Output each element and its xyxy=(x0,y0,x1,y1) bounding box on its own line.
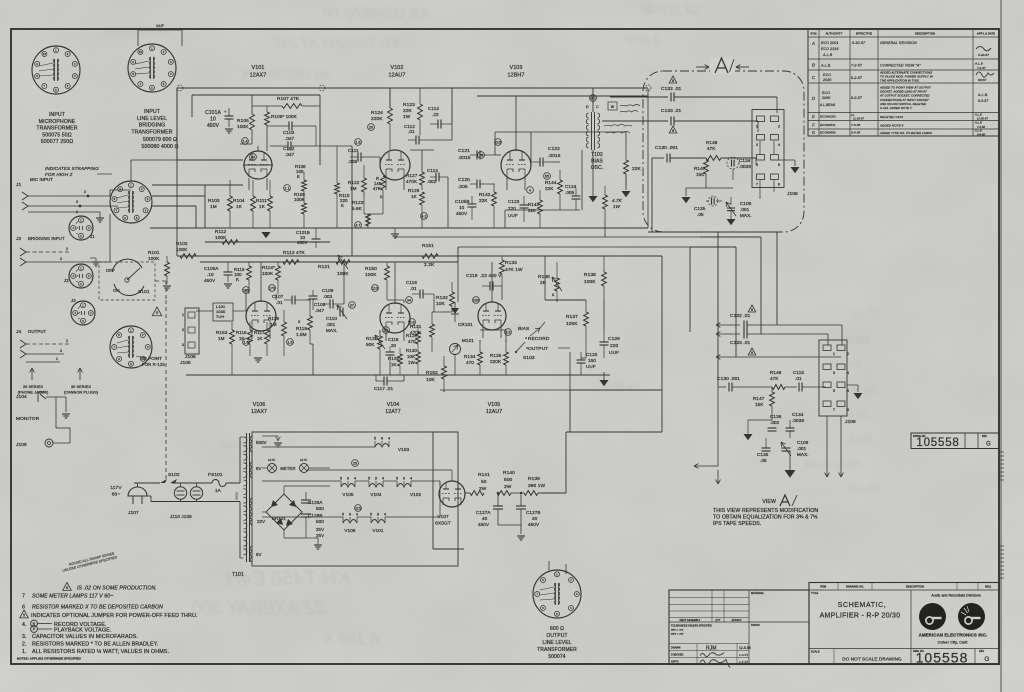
svg-text:6V: 6V xyxy=(256,552,262,557)
checked signature xyxy=(700,653,724,657)
svg-text:.01: .01 xyxy=(410,286,417,291)
svg-text:12-5-56: 12-5-56 xyxy=(739,646,751,650)
svg-text:R121: R121 xyxy=(318,264,330,270)
title block tolerances + signatures xyxy=(668,621,670,623)
svg-text:C116: C116 xyxy=(406,280,417,285)
svg-text:A: A xyxy=(811,41,815,46)
svg-text:OFF: OFF xyxy=(106,268,115,273)
svg-text:J104: J104 xyxy=(16,394,27,400)
svg-text:OUTPUT: OUTPUT xyxy=(528,346,548,352)
svg-text:TRANSFORMER: TRANSFORMER xyxy=(537,647,577,653)
svg-text:APP'D: APP'D xyxy=(671,661,679,664)
svg-text:R151: R151 xyxy=(422,243,434,249)
svg-text:R126: R126 xyxy=(408,188,420,193)
svg-text:15K: 15K xyxy=(755,402,764,407)
svg-text:1.5: 1.5 xyxy=(243,340,248,344)
svg-text:60~: 60~ xyxy=(112,492,121,498)
test points V106 xyxy=(243,287,250,294)
svg-text:.0039: .0039 xyxy=(792,418,804,423)
svg-text:J3: J3 xyxy=(71,298,76,303)
title block outline xyxy=(669,590,809,665)
svg-text:R134: R134 xyxy=(464,354,476,359)
svg-text:RECORD: RECORD xyxy=(528,336,550,342)
svg-text:V101: V101 xyxy=(372,528,383,533)
approved signature xyxy=(700,660,730,668)
svg-text:.047: .047 xyxy=(285,152,295,157)
wire junction marker left xyxy=(177,85,183,91)
svg-text:1K: 1K xyxy=(259,204,266,209)
input microphone transformer socket xyxy=(32,46,80,94)
heater V102 xyxy=(397,484,411,488)
svg-text:J2: J2 xyxy=(16,236,21,242)
wire left arrow bottom xyxy=(694,465,712,467)
svg-text:R112: R112 xyxy=(215,229,227,234)
svg-text:6: 6 xyxy=(847,389,849,393)
svg-text:NEXT ASSEMBLY: NEXT ASSEMBLY xyxy=(680,619,701,622)
svg-text:DRAWING NO.: DRAWING NO. xyxy=(846,586,864,589)
svg-text:SR101: SR101 xyxy=(272,516,286,521)
svg-text:8/2/57: 8/2/57 xyxy=(978,78,987,82)
wire drops below view A box xyxy=(717,232,719,387)
svg-text:LINE LEVEL: LINE LEVEL xyxy=(137,116,167,122)
svg-text:100K: 100K xyxy=(566,321,578,327)
wire V101 grid feed xyxy=(177,159,243,161)
svg-text:12AT7: 12AT7 xyxy=(385,409,400,415)
meter M101 xyxy=(450,344,461,355)
svg-text:AB-72 45-44: AB-72 45-44 xyxy=(805,460,863,471)
wire V102 stage links xyxy=(389,88,391,108)
svg-text:R142: R142 xyxy=(479,192,491,197)
test point rectifier xyxy=(352,460,359,467)
svg-text:V105: V105 xyxy=(488,402,501,408)
svg-text:2: 2 xyxy=(66,247,68,251)
svg-text:47K: 47K xyxy=(707,146,716,151)
svg-text:7-8-58: 7-8-58 xyxy=(851,123,861,127)
test points V102 xyxy=(368,124,375,131)
svg-text:ECO: ECO xyxy=(822,91,830,95)
rotary switch S101 xyxy=(112,259,142,272)
svg-text:6H-5: 6H-5 xyxy=(850,435,872,446)
svg-text:4: 4 xyxy=(847,371,849,375)
svg-text:2 8PM: 2 8PM xyxy=(625,33,661,47)
svg-text:2020: 2020 xyxy=(822,78,831,82)
svg-text:MONITOR: MONITOR xyxy=(16,416,40,422)
svg-text:10K: 10K xyxy=(407,354,415,359)
wire row1/row2 tie rails xyxy=(395,236,700,238)
resistor R110 xyxy=(335,183,340,194)
svg-text:11-26-57: 11-26-57 xyxy=(977,117,988,121)
svg-text:D: D xyxy=(586,105,589,109)
wire row1 ground bus xyxy=(150,227,648,229)
svg-text:OUTPUT: OUTPUT xyxy=(28,329,47,334)
svg-text:2W: 2W xyxy=(504,484,512,490)
svg-text:V102: V102 xyxy=(391,65,404,71)
svg-text:3: 3 xyxy=(60,349,62,353)
svg-text:V102: V102 xyxy=(410,492,421,497)
svg-text:KH.T456 E4H: KH.T456 E4H xyxy=(226,568,350,590)
svg-text:50K: 50K xyxy=(366,342,375,347)
svg-text:FS101: FS101 xyxy=(208,472,223,478)
svg-text:MAX.: MAX. xyxy=(326,328,338,333)
svg-text:QTY: QTY xyxy=(715,620,720,622)
svg-text:G: G xyxy=(986,442,991,448)
ground under J1 xyxy=(96,217,104,219)
svg-text:500: 500 xyxy=(316,519,324,524)
svg-text:1.: 1. xyxy=(22,649,27,655)
connector J106 bottom box xyxy=(819,340,847,416)
tube V101 xyxy=(244,151,272,179)
svg-text:20 SERIES: 20 SERIES xyxy=(23,385,43,389)
svg-text:100K: 100K xyxy=(176,247,188,252)
heater V103 xyxy=(375,444,389,448)
svg-text:100K: 100K xyxy=(262,271,274,276)
svg-text:C118: C118 xyxy=(388,337,399,342)
svg-text:C106: C106 xyxy=(740,201,752,206)
svg-text:METER: METER xyxy=(280,466,295,471)
svg-text:R144: R144 xyxy=(545,180,557,185)
ground left bottom view xyxy=(744,434,753,440)
svg-text:.05: .05 xyxy=(760,458,767,463)
svg-text:JK-30: JK-30 xyxy=(848,385,876,396)
svg-text:R102: R102 xyxy=(176,241,188,246)
svg-text:220: 220 xyxy=(610,343,619,349)
svg-text:170: 170 xyxy=(269,286,275,290)
svg-text:ALL RESISTORS RATED ½ WATT: ALL RESISTORS RATED ½ WATT; VALUES IN OH… xyxy=(32,648,169,655)
svg-text:ANG ± .030: ANG ± .030 xyxy=(671,633,684,636)
wire junction marker right xyxy=(645,85,651,91)
svg-text:7-2-57: 7-2-57 xyxy=(977,66,986,70)
svg-text:C105A: C105A xyxy=(204,266,219,271)
svg-text:.002: .002 xyxy=(770,420,780,425)
ground heater box xyxy=(314,544,322,546)
svg-text:C101A: C101A xyxy=(205,110,221,116)
svg-text:9: 9 xyxy=(375,477,377,481)
svg-text:GENERAL REVISION: GENERAL REVISION xyxy=(880,41,917,45)
svg-text:TOLERANCES UNLESS SPECIFIED: TOLERANCES UNLESS SPECIFIED xyxy=(671,625,712,628)
ground at J106 pin6 xyxy=(847,384,858,386)
svg-text:1M: 1M xyxy=(210,204,217,209)
svg-text:7-2-57: 7-2-57 xyxy=(851,64,863,68)
svg-text:470: 470 xyxy=(466,360,474,365)
svg-text:VIEW: VIEW xyxy=(762,499,776,505)
svg-text:R122: R122 xyxy=(348,180,360,185)
svg-text:14.5″: 14.5″ xyxy=(156,24,165,28)
title area xyxy=(809,648,911,650)
svg-text:R123: R123 xyxy=(352,200,364,205)
test points V101 xyxy=(242,138,249,145)
svg-text:V107: V107 xyxy=(437,514,449,520)
svg-text:1W: 1W xyxy=(403,114,411,120)
svg-text:.005: .005 xyxy=(458,184,468,190)
output socket 8-pin xyxy=(110,326,152,368)
svg-text:C108: C108 xyxy=(314,302,326,307)
right edge fold ruler xyxy=(1000,0,1002,692)
svg-text:C109: C109 xyxy=(322,288,334,293)
svg-text:150: 150 xyxy=(473,298,479,302)
svg-text:A.L.BEAN: A.L.BEAN xyxy=(819,103,836,107)
svg-text:DRAWN: DRAWN xyxy=(671,647,681,650)
wire tie rails to record box xyxy=(457,247,459,262)
svg-text:TIE POINT: TIE POINT xyxy=(140,356,162,361)
svg-text:R143: R143 xyxy=(528,202,539,207)
svg-text:OSC.: OSC. xyxy=(591,165,604,171)
svg-text:THE APPLICATION IN THIS.: THE APPLICATION IN THIS. xyxy=(880,79,920,83)
svg-text:R124: R124 xyxy=(371,110,383,116)
svg-text:TITLE: TITLE xyxy=(811,592,819,595)
svg-text:10K: 10K xyxy=(426,377,436,383)
svg-text:9: 9 xyxy=(347,477,349,481)
svg-text:C124: C124 xyxy=(565,184,577,189)
svg-text:C133 .01: C133 .01 xyxy=(730,340,751,346)
svg-text:NOTES: APPLIES OTHERWISE SPECI: NOTES: APPLIES OTHERWISE SPECIFIED xyxy=(17,657,82,661)
svg-text:117V: 117V xyxy=(268,458,275,462)
svg-text:C132 .01: C132 .01 xyxy=(730,313,751,319)
svg-text:ECO 2316: ECO 2316 xyxy=(821,47,839,51)
svg-text:J2: J2 xyxy=(64,278,69,283)
svg-text:100K: 100K xyxy=(215,235,227,240)
svg-text:INDICATES STRAPPING: INDICATES STRAPPING xyxy=(45,166,99,171)
svg-text:C121: C121 xyxy=(458,148,470,154)
wire top B+ rail xyxy=(177,87,648,89)
svg-text:9-9-57: 9-9-57 xyxy=(978,99,988,103)
20/30 series arrows + labels xyxy=(31,368,33,380)
svg-text:7: 7 xyxy=(22,594,25,600)
svg-text:75: 75 xyxy=(479,153,483,157)
svg-text:4: 4 xyxy=(354,477,356,481)
test points V105 xyxy=(473,297,480,304)
svg-text:J109: J109 xyxy=(16,442,27,448)
svg-text:R152: R152 xyxy=(426,370,438,376)
wire junction marker mid xyxy=(319,85,325,91)
svg-text:KH.TARSHY AT 24C: KH.TARSHY AT 24C xyxy=(270,35,400,51)
svg-text:AMERICAN ELECTRONICS INC.: AMERICAN ELECTRONICS INC. xyxy=(919,633,988,638)
svg-text:2.2K: 2.2K xyxy=(424,262,435,268)
rectifier SR101 xyxy=(266,494,302,530)
svg-text:REQ: REQ xyxy=(985,586,991,589)
svg-text:470: 470 xyxy=(408,339,416,344)
svg-text:RESISTORS MARKED * TO BE: RESISTORS MARKED * TO BE ALLEN BRADLEY. xyxy=(32,642,158,648)
svg-text:1W: 1W xyxy=(613,204,621,209)
svg-text:C107: C107 xyxy=(272,294,284,299)
svg-text:2.: 2. xyxy=(22,642,27,648)
svg-text:74-453: 74-453 xyxy=(605,381,640,393)
svg-text:150: 150 xyxy=(588,358,596,363)
svg-text:12BH7: 12BH7 xyxy=(508,73,525,79)
svg-text:TO OBTAIN EQUALIZATION FOR: TO OBTAIN EQUALIZATION FOR 3¾ & 7½ xyxy=(713,514,818,521)
svg-text:210: 210 xyxy=(495,140,501,144)
svg-text:450V: 450V xyxy=(456,211,468,216)
svg-text:6: 6 xyxy=(22,605,25,611)
svg-text:AB OS-4570 TP: AB OS-4570 TP xyxy=(322,5,431,22)
svg-text:C105B: C105B xyxy=(455,199,470,204)
svg-text:25V: 25V xyxy=(316,527,324,532)
svg-text:ADDED TYPE NO. TO METER LAMPS: ADDED TYPE NO. TO METER LAMPS xyxy=(879,131,932,135)
svg-text:R148: R148 xyxy=(706,140,718,145)
svg-text:EFFECTIVE: EFFECTIVE xyxy=(856,32,872,36)
svg-text:MATERIAL: MATERIAL xyxy=(751,592,765,595)
ground V106 cathode xyxy=(254,357,262,359)
svg-text:S102: S102 xyxy=(168,472,180,478)
ground under J104 xyxy=(65,397,67,412)
svg-text:65: 65 xyxy=(545,174,549,178)
svg-text:3: 3 xyxy=(756,143,758,147)
svg-text:117V: 117V xyxy=(110,485,122,491)
svg-text:8: 8 xyxy=(751,351,753,355)
svg-text:.0015: .0015 xyxy=(458,155,471,161)
svg-text:12AX7: 12AX7 xyxy=(250,73,267,79)
svg-text:ECO#2841: ECO#2841 xyxy=(820,123,836,127)
svg-text:11-: 11- xyxy=(851,113,855,117)
svg-text:C120: C120 xyxy=(458,177,470,183)
svg-text:AUTHORITY: AUTHORITY xyxy=(825,32,842,36)
svg-text:UUF: UUF xyxy=(609,350,619,356)
svg-text:4: 4 xyxy=(410,477,412,481)
ground 22K bias xyxy=(622,191,631,197)
svg-text:ITEM: ITEM xyxy=(820,586,826,589)
svg-text:10K: 10K xyxy=(436,301,446,307)
svg-text:A.L.B: A.L.B xyxy=(822,53,833,57)
svg-text:40: 40 xyxy=(482,516,488,521)
svg-text:R147: R147 xyxy=(753,396,765,401)
svg-text:ECO 2001: ECO 2001 xyxy=(821,41,839,45)
svg-text:R116: R116 xyxy=(236,330,247,335)
drawing number cell xyxy=(911,648,999,650)
svg-text:6: 6 xyxy=(778,163,780,167)
svg-text:TRANSFORMER: TRANSFORMER xyxy=(36,126,77,132)
svg-text:5: 5 xyxy=(833,389,835,393)
svg-text:R104: R104 xyxy=(233,198,245,203)
svg-text:UUF: UUF xyxy=(508,213,518,218)
svg-text:V103: V103 xyxy=(510,65,523,71)
svg-text:CHECKED: CHECKED xyxy=(671,654,684,657)
svg-text:RESISTOR MARKED X TO BE DE: RESISTOR MARKED X TO BE DEPOSITED CARBON xyxy=(32,605,163,611)
svg-text:K: K xyxy=(297,174,300,179)
svg-text:INPUT: INPUT xyxy=(49,112,66,118)
svg-text:500: 500 xyxy=(316,506,324,511)
svg-text:EFFECT.: EFFECT. xyxy=(732,619,743,622)
svg-text:40: 40 xyxy=(532,516,538,521)
svg-text:MIC INPUT: MIC INPUT xyxy=(30,177,53,182)
svg-text:A.L.B: A.L.B xyxy=(974,113,982,117)
wire bias feed down xyxy=(604,220,606,237)
svg-text:100K: 100K xyxy=(237,124,249,130)
svg-text:.05: .05 xyxy=(697,212,704,217)
wire rail second top xyxy=(477,95,648,97)
svg-text:3: 3 xyxy=(76,200,78,204)
wires from jacks to input socket xyxy=(88,195,110,197)
ground under C126 xyxy=(600,380,609,386)
svg-text:2: 2 xyxy=(84,190,86,194)
svg-text:5-30-57: 5-30-57 xyxy=(852,41,866,45)
title block next-assembly grid xyxy=(669,597,749,599)
connector J106 box xyxy=(752,110,784,188)
svg-text:450V: 450V xyxy=(478,522,490,527)
wire row2 ground bus xyxy=(186,374,610,376)
svg-text:(CANNON PLUGS): (CANNON PLUGS) xyxy=(64,390,99,394)
svg-text:C126: C126 xyxy=(608,336,620,342)
svg-text:5-30-57: 5-30-57 xyxy=(978,53,989,57)
svg-text:5: 5 xyxy=(23,614,25,618)
power top wire xyxy=(134,482,160,484)
transformer T102 bias osc xyxy=(591,112,593,150)
svg-text:DESCRIPTION: DESCRIPTION xyxy=(906,586,924,589)
svg-text:1K: 1K xyxy=(411,194,418,199)
svg-text:R141: R141 xyxy=(478,472,490,478)
meter lamps xyxy=(268,464,277,473)
svg-text:.0015: .0015 xyxy=(548,153,561,159)
svg-text:470K: 470K xyxy=(410,330,422,335)
svg-text:7: 7 xyxy=(833,408,835,412)
svg-text:REV: REV xyxy=(979,650,985,653)
socket J2 4-pin xyxy=(69,264,93,288)
svg-text:1K: 1K xyxy=(257,336,263,341)
svg-text:117V: 117V xyxy=(300,458,307,462)
svg-text:3: 3 xyxy=(182,343,184,347)
svg-text:J107: J107 xyxy=(128,510,139,516)
svg-text:M101: M101 xyxy=(462,338,474,343)
svg-text:4: 4 xyxy=(356,513,358,517)
wire V101 inner feedback box xyxy=(192,94,320,96)
svg-text:100K: 100K xyxy=(584,279,596,285)
svg-text:22K: 22K xyxy=(545,186,554,191)
svg-text:100K: 100K xyxy=(148,256,160,261)
ground right of J106 xyxy=(778,159,795,161)
svg-text:R101: R101 xyxy=(148,250,160,255)
ghost bleed-through text xyxy=(106,3,881,648)
svg-text:R137: R137 xyxy=(566,314,578,320)
svg-text:C130 .001: C130 .001 xyxy=(717,376,740,382)
wire record output to transformer xyxy=(569,390,571,432)
tube V102 xyxy=(380,150,410,180)
svg-text:G: G xyxy=(984,656,989,663)
svg-text:470K: 470K xyxy=(406,179,418,184)
svg-text:4: 4 xyxy=(382,477,384,481)
svg-text:SYM: SYM xyxy=(811,32,817,36)
svg-text:9: 9 xyxy=(349,513,351,517)
svg-text:10: 10 xyxy=(210,117,216,123)
svg-text:450V: 450V xyxy=(528,522,540,527)
diode CR101 xyxy=(454,302,456,308)
svg-text:1.5M: 1.5M xyxy=(296,332,307,337)
wire third line bottom xyxy=(716,356,740,358)
svg-text:4: 4 xyxy=(384,513,386,517)
svg-text:R105: R105 xyxy=(237,118,249,124)
wire row2 plate rail xyxy=(200,261,350,263)
500V lead + ground xyxy=(262,435,278,437)
heater V104 xyxy=(369,484,383,488)
input line level bridging transformer socket xyxy=(128,44,176,92)
wire row2 stage links xyxy=(245,290,247,311)
svg-text:1M: 1M xyxy=(218,336,225,341)
svg-text:34: 34 xyxy=(407,298,411,302)
svg-text:9: 9 xyxy=(403,477,405,481)
wires to output transformer xyxy=(565,432,567,493)
svg-text:V104: V104 xyxy=(370,492,381,497)
svg-text:.0039: .0039 xyxy=(739,164,751,169)
svg-text:FINISH: FINISH xyxy=(751,624,760,627)
svg-text:22K: 22K xyxy=(632,166,642,172)
view A detail box xyxy=(643,71,804,232)
svg-text:R127: R127 xyxy=(406,173,418,178)
wire V103 plate riser xyxy=(515,96,517,151)
ground left view A box xyxy=(685,188,687,196)
svg-text:1M: 1M xyxy=(270,322,277,327)
svg-text:7: 7 xyxy=(756,182,758,186)
svg-text:C4 2EP-30: C4 2EP-30 xyxy=(641,3,700,17)
svg-text:RJM: RJM xyxy=(706,646,717,652)
svg-text:5: 5 xyxy=(342,513,344,517)
wire stubs into output transformer xyxy=(548,561,550,570)
